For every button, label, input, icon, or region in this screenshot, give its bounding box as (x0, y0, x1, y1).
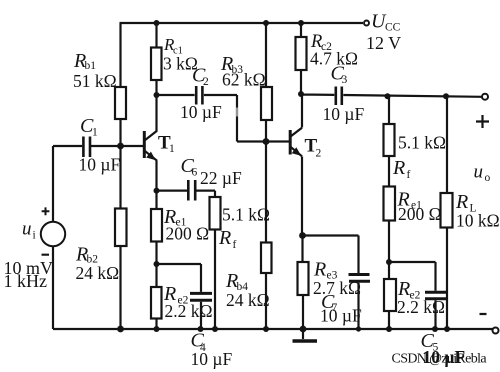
svg-text:i: i (33, 230, 36, 242)
svg-text:51 kΩ: 51 kΩ (73, 71, 117, 91)
svg-text:22 µF: 22 µF (200, 168, 242, 188)
svg-text:u: u (474, 162, 484, 183)
svg-text:12 V: 12 V (366, 33, 401, 53)
svg-text:10 µF: 10 µF (79, 155, 121, 175)
svg-text:R: R (218, 227, 231, 249)
svg-text:200 Ω: 200 Ω (398, 204, 442, 224)
svg-text:2.2 kΩ: 2.2 kΩ (397, 297, 445, 317)
svg-text:o: o (485, 172, 491, 184)
svg-text:10 µF: 10 µF (191, 349, 233, 369)
svg-text:f: f (233, 239, 237, 251)
svg-text:24 kΩ: 24 kΩ (226, 290, 270, 310)
svg-text:1: 1 (169, 143, 175, 155)
svg-text:10 µF: 10 µF (323, 104, 365, 124)
svg-text:1: 1 (92, 127, 98, 139)
svg-text:62 kΩ: 62 kΩ (222, 70, 266, 90)
svg-text:3: 3 (342, 74, 348, 86)
svg-text:2: 2 (316, 148, 322, 160)
svg-text:2: 2 (203, 76, 209, 88)
svg-text:b1: b1 (85, 60, 97, 72)
svg-text:CC: CC (385, 22, 401, 34)
svg-text:200 Ω: 200 Ω (166, 224, 210, 244)
svg-text:5.1 kΩ: 5.1 kΩ (222, 205, 270, 225)
svg-text:10 µF: 10 µF (320, 306, 362, 326)
svg-text:2.2 kΩ: 2.2 kΩ (165, 301, 213, 321)
svg-text:f: f (407, 169, 411, 181)
svg-text:CSDN @zuiRebla: CSDN @zuiRebla (392, 352, 488, 367)
svg-text:6: 6 (192, 167, 198, 179)
svg-text:5.1 kΩ: 5.1 kΩ (398, 133, 446, 153)
svg-text:10 kΩ: 10 kΩ (456, 211, 500, 231)
svg-text:24 kΩ: 24 kΩ (76, 263, 120, 283)
svg-text:10 µF: 10 µF (180, 102, 222, 122)
svg-text:R: R (392, 157, 405, 179)
svg-text:u: u (22, 219, 32, 240)
svg-text:1 kHz: 1 kHz (4, 271, 48, 291)
